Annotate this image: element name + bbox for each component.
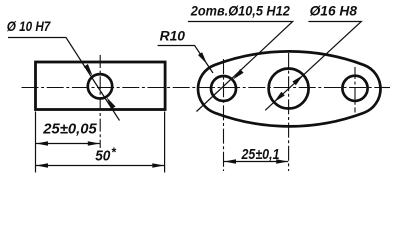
hole left O10,5 <box>211 76 236 101</box>
svg-text:25±0,1: 25±0,1 <box>241 147 280 163</box>
leader line O16 H8 <box>265 22 361 111</box>
dimension line 25±0,05 <box>36 143 100 145</box>
arrowhead leader 2otv <box>233 69 244 80</box>
dimension line 25±0,1 <box>224 161 288 163</box>
plate outline left view <box>36 62 166 110</box>
arrowhead leader O10H7 upper <box>84 64 93 76</box>
arrowhead dim50 left <box>36 163 48 167</box>
extension line left <box>35 112 37 173</box>
horizontal centerline <box>22 87 391 89</box>
vertical centerline of left hole <box>99 55 101 148</box>
dimension line 50 <box>36 165 164 167</box>
leader line 2otv O10,5 H12 <box>188 22 293 112</box>
svg-text:50: 50 <box>95 149 110 165</box>
leader line O10H7 <box>8 38 120 121</box>
arrowhead dim25-right-view right <box>276 159 288 163</box>
svg-text:25±0,05: 25±0,05 <box>42 122 97 138</box>
hole right O10,5 <box>342 76 367 101</box>
plate outline oval right view <box>198 51 380 126</box>
leader line R10 <box>158 46 213 74</box>
vertical centerline right hole <box>354 67 356 113</box>
svg-text:*: * <box>111 146 117 160</box>
svg-text:Ø 10 Н7: Ø 10 Н7 <box>7 18 52 34</box>
arrowhead dim25 left <box>36 141 48 145</box>
arrowhead O16 upper-right <box>292 75 303 85</box>
arrowhead O16 lower-left <box>274 92 285 102</box>
extension line right <box>164 112 166 173</box>
arrowhead dim25-right-view left <box>224 159 236 163</box>
hole middle O16 <box>269 69 309 109</box>
arrowhead leader O10H7 lower <box>107 97 116 109</box>
svg-text:Ø16 Н8: Ø16 Н8 <box>310 4 358 19</box>
hole O10 H7 circle <box>88 74 112 98</box>
svg-text:2отв.Ø10,5 Н12: 2отв.Ø10,5 Н12 <box>190 3 290 19</box>
svg-text:R10: R10 <box>160 28 186 43</box>
arrowhead dim25 right <box>88 141 100 145</box>
arrowhead dim50 right <box>152 163 164 167</box>
vertical centerline middle hole <box>288 53 290 171</box>
vertical centerline left hole <box>223 59 225 171</box>
arrowhead R10 <box>198 52 207 64</box>
